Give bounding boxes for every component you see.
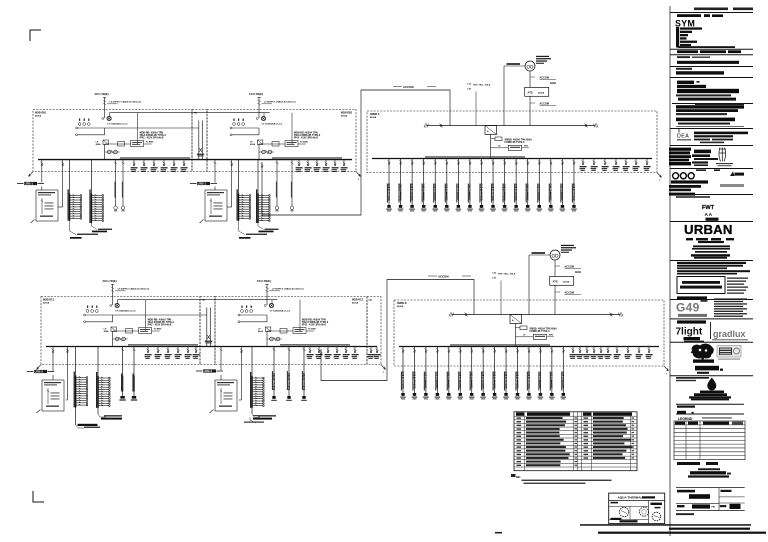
consultant 2 logo block xyxy=(669,148,691,166)
feeder breaker A2-1 xyxy=(52,347,55,372)
breaker B2-4 xyxy=(325,347,332,359)
breaker CS7 xyxy=(644,159,651,171)
approval note lines xyxy=(676,377,709,381)
svg-text:2x6mm+E 20C: 2x6mm+E 20C xyxy=(528,371,531,388)
outgoing circuit D1 xyxy=(400,347,406,400)
svg-text:2x6mm+E 20C: 2x6mm+E 20C xyxy=(402,371,405,388)
svg-text:LRB-2: LRB-2 xyxy=(35,370,44,374)
status side notes xyxy=(727,278,748,294)
MCB group B-L1 xyxy=(237,160,251,221)
outgoing circuit C2 xyxy=(398,159,404,212)
panel data label B xyxy=(294,132,321,140)
svg-text:MDB-RC2: MDB-RC2 xyxy=(352,299,364,302)
panel data label A xyxy=(140,132,167,140)
svg-text:FCU-7B(E): FCU-7B(E) xyxy=(103,279,117,283)
schedule row 14 xyxy=(517,464,578,466)
svg-text:400A: 400A xyxy=(96,143,101,146)
drawing status lines xyxy=(677,270,750,274)
breaker CS1 xyxy=(580,159,587,171)
breaker A4 xyxy=(131,160,138,172)
node LRB-1 xyxy=(17,182,44,186)
breaker CS4 xyxy=(613,159,620,171)
svg-text:7light: 7light xyxy=(676,327,703,338)
contractor G49 address xyxy=(714,298,747,316)
outgoing circuit C12 xyxy=(513,159,519,212)
breaker labels C xyxy=(467,83,491,125)
svg-text:FCU-7B(E): FCU-7B(E) xyxy=(257,279,271,283)
busbar SMDB-D xyxy=(399,346,659,348)
wire voltmeter A2 xyxy=(84,314,207,323)
svg-text:MDB-RC1: MDB-RC1 xyxy=(43,299,55,302)
rule xyxy=(670,48,753,50)
tie breaker on interconnect bottom xyxy=(320,351,323,355)
breaker DS5 xyxy=(598,347,605,359)
outgoing circuit C10 xyxy=(490,159,496,212)
rule xyxy=(670,194,753,196)
wire into LP-C side xyxy=(66,399,67,401)
svg-text:TRV, T.B.L, T.B.A: TRV, T.B.L, T.B.A xyxy=(473,83,491,86)
node LRB-2 xyxy=(27,370,54,374)
breaker A2-9 xyxy=(193,347,200,359)
issue bold line xyxy=(676,71,724,74)
titleblock fields xyxy=(676,488,745,511)
feeder to FAN-A2 xyxy=(121,160,125,212)
outgoing circuit D15 xyxy=(561,347,567,400)
main ACB A2 xyxy=(104,327,117,333)
svg-text:ACCOM: ACCOM xyxy=(403,85,414,89)
sheet bottom rule 1 xyxy=(580,524,751,526)
MCB group A-L1 xyxy=(68,160,82,221)
panel data label B2 xyxy=(302,319,329,327)
svg-text:2x6mm+E 20C: 2x6mm+E 20C xyxy=(492,183,495,200)
breaker A5 xyxy=(141,160,148,172)
breaker DS10 xyxy=(646,347,653,359)
bus tie section xyxy=(192,110,207,172)
svg-text:4000A: 4000A xyxy=(352,302,359,305)
svg-text:4000A: 4000A xyxy=(341,115,348,118)
breaker DS1 xyxy=(570,347,577,359)
svg-text:SMDB-D: SMDB-D xyxy=(397,302,407,305)
svg-text:2x6mm+E 20C: 2x6mm+E 20C xyxy=(446,183,449,200)
breaker B6 xyxy=(332,160,339,172)
outgoing circuit D12 xyxy=(526,347,532,400)
rule xyxy=(670,77,753,79)
label MDB-RB2 xyxy=(341,112,353,118)
incoming feeder B xyxy=(249,92,296,118)
contractor G49 logo xyxy=(676,300,708,317)
circuit note C-L1 xyxy=(76,424,100,428)
svg-text:2x6mm+E 20C: 2x6mm+E 20C xyxy=(480,183,483,200)
municipality emblem xyxy=(689,378,731,401)
internal link wire A2 xyxy=(118,300,278,331)
svg-text:2x6mm+E 20C: 2x6mm+E 20C xyxy=(551,371,554,388)
feeder to FAN-A1 xyxy=(114,160,118,212)
schedule row 1 xyxy=(517,417,635,419)
legend underline xyxy=(678,46,735,48)
contractor heading xyxy=(677,296,707,299)
incoming feeder A2 xyxy=(103,279,150,305)
schedule row 7 xyxy=(517,439,635,441)
title top project line xyxy=(694,8,753,11)
circuit note D-L1 xyxy=(252,414,276,420)
wire to busbar A2 xyxy=(112,339,114,347)
notes bold line xyxy=(677,61,739,64)
svg-text:CT 3x4000/5A CL-0.5: CT 3x4000/5A CL-0.5 xyxy=(270,310,291,313)
wire voltmeter B xyxy=(230,127,259,136)
feeder breaker A2-2 xyxy=(66,347,69,401)
svg-text:C.B.: C.B. xyxy=(467,83,472,85)
svg-text:2x6mm+E 20C: 2x6mm+E 20C xyxy=(503,183,506,200)
svg-text:2x6mm+E 20C: 2x6mm+E 20C xyxy=(425,371,428,388)
bus tie breaker xyxy=(197,121,205,160)
svg-text:IP42 - 415V 3PH+N+E: IP42 - 415V 3PH+N+E xyxy=(302,324,326,327)
switchboard MDB-RC2 enclosure xyxy=(215,297,367,365)
svg-text:LRB-1: LRB-1 xyxy=(25,182,34,186)
breaker DS9 xyxy=(636,347,643,359)
keyplan text block xyxy=(676,85,739,101)
authority FWT mark xyxy=(702,205,719,221)
svg-text:400A: 400A xyxy=(104,330,109,333)
schedule row 12 xyxy=(517,457,635,459)
switchboard MDB-RB2 enclosure xyxy=(207,110,356,172)
wire breaker to bus C xyxy=(490,135,492,159)
breaker B7 xyxy=(341,160,348,172)
CT set B xyxy=(233,119,245,126)
rule xyxy=(670,260,753,262)
svg-text:2x6mm+E 20C: 2x6mm+E 20C xyxy=(573,183,576,200)
svg-text:TRV, T.B.L, T.B.A: TRV, T.B.L, T.B.A xyxy=(498,272,516,275)
MCB group C-L2 xyxy=(96,347,110,415)
stamp seal 3 xyxy=(652,512,661,521)
schedule row 2 xyxy=(517,421,635,423)
wire into LP-D side xyxy=(239,399,241,401)
schedule row 6 xyxy=(517,435,635,437)
svg-text:FORM-4B TYPE-6: FORM-4B TYPE-6 xyxy=(530,330,551,333)
end riser section xyxy=(367,297,381,365)
corner arrow MDB-RC2 xyxy=(381,365,386,375)
label ACCOM top xyxy=(393,85,436,89)
rule xyxy=(676,403,744,405)
metering unit B xyxy=(259,141,308,147)
disclaimer block xyxy=(676,104,744,125)
breaker A8 xyxy=(171,160,178,172)
rule xyxy=(670,128,753,130)
node LRB-2 xyxy=(196,369,223,373)
drawing title text xyxy=(688,468,731,477)
busbar label C xyxy=(425,156,525,157)
outgoing circuit C4 xyxy=(421,159,427,212)
consultant DEA logo xyxy=(677,134,691,141)
wire ACCOM lower D xyxy=(555,285,581,314)
main incoming breaker C xyxy=(485,126,497,135)
schedule row 4 xyxy=(517,428,635,430)
rule xyxy=(670,318,753,320)
busbar label D xyxy=(450,344,550,345)
panel LP-D xyxy=(210,380,238,413)
schedule row 9 xyxy=(517,446,635,448)
busbar SMDB-C xyxy=(372,158,652,160)
sheet bottom rule 3 xyxy=(495,532,766,534)
rule xyxy=(670,299,753,301)
rule xyxy=(676,413,744,415)
outgoing circuit C17 xyxy=(571,159,577,212)
svg-text:2x6mm+E 20C: 2x6mm+E 20C xyxy=(459,371,462,388)
schedule row 3 xyxy=(517,424,635,426)
svg-text:ACCOM: ACCOM xyxy=(565,292,574,295)
svg-text:2x6mm+E 20C: 2x6mm+E 20C xyxy=(422,183,425,200)
generator kWh meter C xyxy=(525,56,551,71)
notes label xyxy=(677,56,710,58)
UPS line wire D xyxy=(529,252,550,314)
svg-text:400A: 400A xyxy=(258,330,263,333)
feeder breaker B2-1 xyxy=(240,347,243,401)
svg-text:IP42 - 415V 3PH+N+E: IP42 - 415V 3PH+N+E xyxy=(294,137,318,140)
svg-text:C.B.: C.B. xyxy=(492,272,497,274)
svg-text:2x6mm+E 20C: 2x6mm+E 20C xyxy=(388,183,391,200)
svg-text:2x6mm+E 20C: 2x6mm+E 20C xyxy=(469,183,472,200)
schedule row 13 xyxy=(517,461,578,463)
MCB group A-L2 xyxy=(89,160,103,223)
breaker E2 xyxy=(374,347,381,359)
outgoing circuit C14 xyxy=(536,159,542,212)
breaker B2 xyxy=(296,160,303,172)
svg-text:LV SUPPLY CABLE 4Cx300mm2: LV SUPPLY CABLE 4Cx300mm2 xyxy=(272,288,304,291)
svg-text:FORM-4B TYPE-6: FORM-4B TYPE-6 xyxy=(505,141,526,144)
breaker A2-8 xyxy=(185,347,192,359)
breaker A6 xyxy=(151,160,158,172)
svg-text:LV SUPPLY CABLE 4Cx300mm2: LV SUPPLY CABLE 4Cx300mm2 xyxy=(118,288,150,291)
breaker DS6 xyxy=(605,347,612,359)
svg-text:2500A: 2500A xyxy=(563,281,570,284)
svg-text:ATS: ATS xyxy=(528,91,533,95)
busbar MDB-RB1 xyxy=(38,159,352,161)
svg-text:2x6mm+E 20C: 2x6mm+E 20C xyxy=(561,183,564,200)
wire breaker to bus D xyxy=(515,324,517,347)
load schedule table xyxy=(514,412,637,471)
project title block xyxy=(677,262,746,269)
rule xyxy=(670,54,753,56)
svg-text:2x6mm+E 20C: 2x6mm+E 20C xyxy=(457,183,460,200)
svg-text:MDB-RB1: MDB-RB1 xyxy=(35,112,47,115)
label SMDB-D xyxy=(397,302,407,308)
breaker DS4 xyxy=(591,347,598,359)
svg-text:IP42 - 415V 3PH+N+E: IP42 - 415V 3PH+N+E xyxy=(140,137,164,140)
main ACB B xyxy=(250,140,263,146)
feeder to FAN-B2 xyxy=(290,160,294,212)
circuit note B-L2 xyxy=(258,223,279,232)
circuit note B-L1 xyxy=(239,221,268,239)
svg-text:LV SUPPLY CABLE 4Cx300mm2: LV SUPPLY CABLE 4Cx300mm2 xyxy=(264,101,296,104)
svg-text:ATS: ATS xyxy=(553,280,558,284)
schedule row 5 xyxy=(517,432,635,434)
outgoing circuit D6 xyxy=(457,347,463,400)
outgoing circuit D9 xyxy=(492,347,498,400)
feeder breaker A2 xyxy=(61,160,64,207)
svg-text:FCU-7B(E): FCU-7B(E) xyxy=(249,92,263,96)
CT set B2 xyxy=(241,306,253,313)
sheet corner mark bottom-left xyxy=(33,491,44,502)
tie breaker on interconnect xyxy=(261,164,264,168)
breaker B2-6 xyxy=(343,347,350,359)
breaker B2-3 xyxy=(316,347,323,359)
svg-text:LRB-2: LRB-2 xyxy=(204,369,213,373)
aux breaker D xyxy=(516,326,558,333)
surge device D xyxy=(516,334,555,339)
svg-text:2500A: 2500A xyxy=(538,92,545,95)
circuit note C-L2 xyxy=(98,414,122,420)
svg-text:ACCOM: ACCOM xyxy=(438,275,449,279)
kWh meter A2 xyxy=(110,303,137,312)
rule xyxy=(670,341,753,343)
breaker B2-2 xyxy=(307,347,314,359)
tick mark xyxy=(678,128,680,133)
authority note xyxy=(676,196,710,198)
svg-text:FCU-7B(E): FCU-7B(E) xyxy=(95,92,109,96)
revision table xyxy=(674,421,745,460)
outgoing circuit B2R3 xyxy=(301,347,307,401)
breaker B2-7 xyxy=(352,347,359,359)
outgoing circuit C3 xyxy=(409,159,415,212)
svg-text:2x6mm+E 20C: 2x6mm+E 20C xyxy=(482,371,485,388)
switchboard MDB-RC1 enclosure xyxy=(41,297,200,365)
breaker CS2 xyxy=(591,159,598,171)
outgoing circuit D4 xyxy=(435,347,441,400)
interconnect wire ACCOM top xyxy=(262,90,450,215)
outgoing circuit D14 xyxy=(549,347,555,400)
outgoing circuit C5 xyxy=(432,159,438,212)
subcontractor 7light logo xyxy=(676,327,705,343)
rule xyxy=(672,103,753,105)
panel LP-C xyxy=(37,380,65,413)
ATS D xyxy=(550,272,581,286)
CT set A xyxy=(78,119,90,126)
client URBAN tagline xyxy=(686,238,734,253)
breaker CS6 xyxy=(633,159,640,171)
UPS line wire C xyxy=(504,63,525,125)
busbar MDB-RC1 xyxy=(46,346,377,348)
svg-text:2x6mm+E 20C: 2x6mm+E 20C xyxy=(411,183,414,200)
consultant CCO text xyxy=(669,180,708,195)
metering unit B2 xyxy=(267,328,316,334)
internal link wire A xyxy=(110,113,270,144)
outgoing circuit D7 xyxy=(469,347,475,400)
drawn-by label xyxy=(677,406,695,414)
breaker labels D xyxy=(492,272,516,314)
svg-text:2x6mm+E 20C: 2x6mm+E 20C xyxy=(516,371,519,388)
svg-text:CT 3x4000/5A CL-0.5: CT 3x4000/5A CL-0.5 xyxy=(107,123,128,126)
svg-text:2x6mm+E 20C: 2x6mm+E 20C xyxy=(550,183,553,200)
breaker B4 xyxy=(314,160,321,172)
label MDB-RC2 xyxy=(352,299,364,305)
title column border xyxy=(669,6,671,536)
svg-text:ACCOM: ACCOM xyxy=(540,77,549,80)
MCB group B-L2 xyxy=(256,160,270,223)
svg-text:4000A: 4000A xyxy=(370,116,377,119)
svg-text:LEGEND: LEGEND xyxy=(678,417,693,421)
subcontractor heading xyxy=(677,320,706,323)
consultant 2 emblem xyxy=(716,148,733,167)
rule xyxy=(670,375,753,377)
feeder to LRB-2B panel xyxy=(220,347,223,381)
wire into LP-A side xyxy=(58,206,63,208)
outgoing circuit C16 xyxy=(560,159,566,212)
internal link wire B2 xyxy=(272,300,300,331)
consultant CCO logo xyxy=(673,169,720,178)
svg-text:4000A: 4000A xyxy=(35,115,42,118)
svg-text:AA: AA xyxy=(705,212,713,218)
aux breaker C xyxy=(491,137,533,144)
outgoing circuit D13 xyxy=(538,347,544,400)
svg-text:2x6mm+E 20C: 2x6mm+E 20C xyxy=(562,371,565,388)
svg-text:2x6mm+E 20C: 2x6mm+E 20C xyxy=(471,371,474,388)
wire ACCOM lower C xyxy=(530,96,556,125)
rule xyxy=(676,125,744,127)
sheet footer note xyxy=(676,513,694,515)
MCB group D-L1 xyxy=(250,347,264,415)
busbar label B2 xyxy=(280,344,350,345)
sheet corner mark top-left xyxy=(30,30,41,41)
metering unit A2 xyxy=(113,328,162,334)
consultant DEA text xyxy=(694,132,748,144)
outgoing circuit D8 xyxy=(480,347,486,400)
surge device C xyxy=(491,145,530,150)
kWh meter B xyxy=(256,116,283,125)
feeder breaker B1 xyxy=(230,160,233,207)
feeder to FAN-B1 xyxy=(275,160,279,212)
bus tie section bottom xyxy=(200,297,215,365)
wire to LRB-1 panel xyxy=(41,187,43,191)
svg-text:URBAN: URBAN xyxy=(684,222,733,237)
outgoing circuit C15 xyxy=(548,159,554,212)
svg-text:SMDB-C: SMDB-C xyxy=(370,113,380,116)
kWh meter B2 xyxy=(264,303,291,312)
breaker CS3 xyxy=(602,159,609,171)
breaker B2-5 xyxy=(334,347,341,359)
svg-text:IP42 - 415V 3PH+N+E: IP42 - 415V 3PH+N+E xyxy=(148,324,172,327)
ATS C xyxy=(525,83,556,97)
breaker A9 xyxy=(181,160,188,172)
svg-text:2x6mm+E 20C: 2x6mm+E 20C xyxy=(303,373,306,390)
breaker A7 xyxy=(161,160,168,172)
approval stamp box xyxy=(609,493,665,523)
svg-text:CT 3x4000/5A CL-0.5: CT 3x4000/5A CL-0.5 xyxy=(262,123,283,126)
stamp seal 1 xyxy=(619,507,628,516)
breaker DS8 xyxy=(625,347,632,359)
wire into LP-B side xyxy=(227,206,232,208)
svg-text:2x6mm+E 20C: 2x6mm+E 20C xyxy=(515,183,518,200)
outgoing circuit D3 xyxy=(423,347,429,400)
svg-text:AQUA THERMAL: AQUA THERMAL xyxy=(618,496,643,500)
MCB group C-L1 xyxy=(74,347,88,426)
supplier tree emblem xyxy=(691,344,714,360)
outgoing circuit C13 xyxy=(525,159,531,212)
svg-text:2x6mm+E 20C: 2x6mm+E 20C xyxy=(413,371,416,388)
svg-text:2x6mm+E 20C: 2x6mm+E 20C xyxy=(434,183,437,200)
svg-text:TO BMS: TO BMS xyxy=(308,329,316,331)
corner arrow MDB-RB1 xyxy=(29,172,34,177)
bus tie breaker bottom xyxy=(205,308,213,347)
svg-text:FWT: FWT xyxy=(702,205,715,211)
project number line xyxy=(677,14,723,17)
supplier barcode box xyxy=(717,346,741,360)
outgoing circuit C7 xyxy=(456,159,462,212)
main ACB B2 xyxy=(258,327,271,333)
consultant 2 text xyxy=(692,150,718,166)
outgoing circuit B2R1 xyxy=(271,347,277,401)
breaker B3 xyxy=(305,160,312,172)
subcontractor gradlux logo xyxy=(711,322,749,340)
node LRB-1 xyxy=(190,182,217,186)
